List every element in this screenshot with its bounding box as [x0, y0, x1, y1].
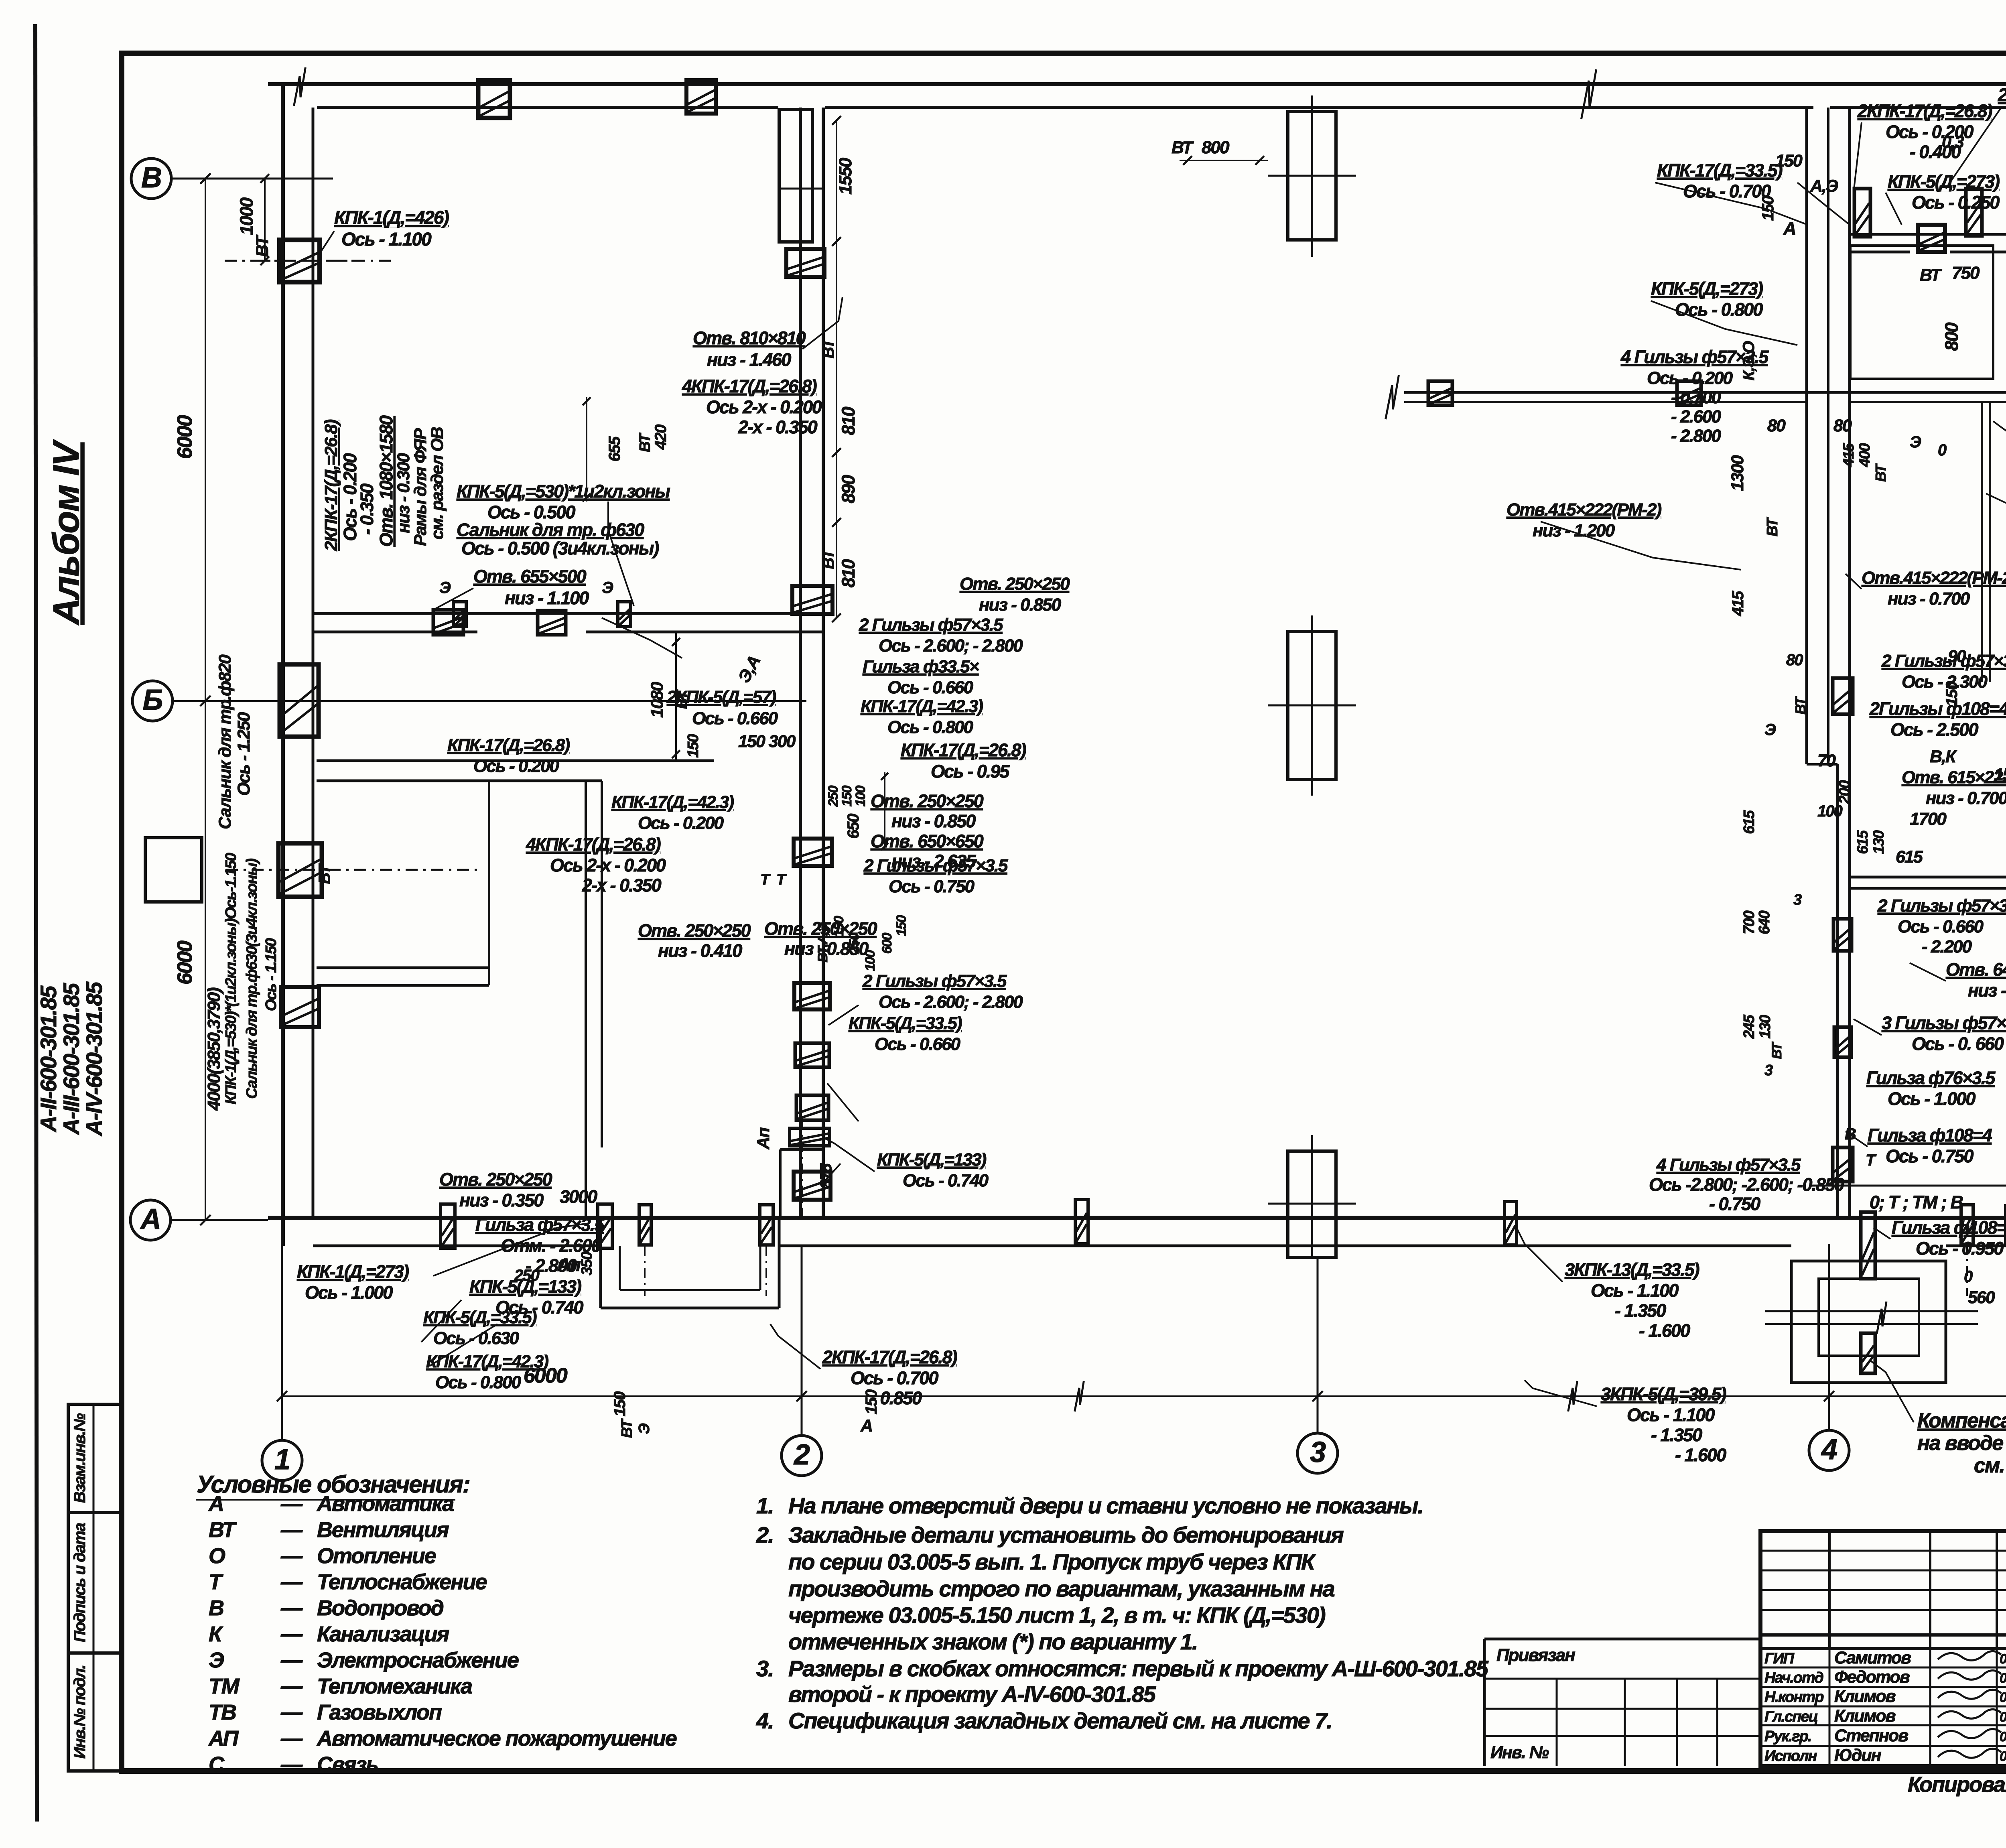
- svg-text:0: 0: [1964, 1268, 1973, 1285]
- svg-text:2 Гильзы ф57×3.5: 2 Гильзы ф57×3.5: [859, 615, 1003, 635]
- svg-text:Ось - 1.100: Ось - 1.100: [341, 229, 432, 250]
- svg-text:2КПК-5(Д,=57): 2КПК-5(Д,=57): [1998, 85, 2006, 105]
- svg-text:80: 80: [1786, 651, 1803, 669]
- svg-text:2 Гильзы ф57×3.5: 2 Гильзы ф57×3.5: [863, 856, 1008, 875]
- svg-text:3КПК-13(Д,=33.5): 3КПК-13(Д,=33.5): [1565, 1259, 1699, 1280]
- svg-text:Самитов: Самитов: [1834, 1648, 1911, 1667]
- svg-text:С: С: [209, 1753, 225, 1777]
- svg-text:Отв. 250×250: Отв. 250×250: [960, 574, 1070, 594]
- break mark top wall middle: [1581, 69, 1596, 119]
- axis circle 4: [1809, 1430, 1849, 1470]
- svg-text:КПК-5(Д,=33.5): КПК-5(Д,=33.5): [423, 1308, 537, 1327]
- svg-text:250: 250: [514, 1267, 539, 1284]
- title block top section lines: [1760, 1633, 2006, 1637]
- svg-text:100: 100: [863, 950, 878, 971]
- svg-text:ВТ: ВТ: [619, 1418, 636, 1438]
- svg-text:Ось - 0.950: Ось - 0.950: [1916, 1238, 2004, 1259]
- svg-text:Инв. №: Инв. №: [1490, 1743, 1549, 1762]
- svg-text:615: 615: [1854, 830, 1871, 854]
- axis line 3: [1317, 1258, 1319, 1433]
- svg-text:А-II-600-301.85: А-II-600-301.85: [36, 985, 61, 1133]
- svg-text:В: В: [141, 162, 161, 194]
- svg-text:Автоматика: Автоматика: [316, 1492, 454, 1516]
- svg-text:1300: 1300: [1728, 455, 1747, 491]
- svg-text:А-III-600-301.85: А-III-600-301.85: [59, 983, 84, 1135]
- svg-text:Рук.гр.: Рук.гр.: [1764, 1728, 1811, 1745]
- svg-text:КПК-1(Д,=273): КПК-1(Д,=273): [297, 1261, 409, 1282]
- partition x4950: [1981, 402, 1983, 682]
- title block outer: [1760, 1531, 2006, 1766]
- svg-text:- 2.600: - 2.600: [1671, 407, 1722, 426]
- svg-text:Теплоснабжение: Теплоснабжение: [317, 1570, 487, 1594]
- svg-text:КПК-5(Д,=133): КПК-5(Д,=133): [877, 1150, 987, 1170]
- svg-text:ВТ: ВТ: [637, 433, 654, 452]
- axis circle 3: [1297, 1433, 1338, 1473]
- svg-text:Ось - 0.95: Ось - 0.95: [931, 761, 1010, 782]
- extra ticks top-right chain: [1830, 202, 2006, 203]
- svg-text:245: 245: [1741, 1014, 1758, 1039]
- svg-text:Гильза ф108=4: Гильза ф108=4: [1868, 1125, 1992, 1145]
- margin box Инв.№ подл.: [68, 1653, 122, 1771]
- svg-text:Степнов: Степнов: [1834, 1726, 1908, 1745]
- svg-text:6000: 6000: [173, 415, 197, 459]
- svg-text:750: 750: [1952, 263, 1980, 283]
- svg-text:Ап: Ап: [557, 1255, 581, 1275]
- svg-text:Э: Э: [1764, 721, 1776, 739]
- svg-text:ВТ: ВТ: [1920, 266, 1942, 285]
- svg-text:Спецификация закладных деталей: Спецификация закладных деталей см. на ли…: [788, 1708, 1332, 1733]
- svg-text:КПК-5(Д,=273): КПК-5(Д,=273): [1651, 278, 1763, 299]
- svg-text:низ - 0.300: низ - 0.300: [394, 453, 413, 533]
- svg-text:В: В: [209, 1596, 223, 1620]
- svg-text:4.: 4.: [756, 1708, 774, 1733]
- svg-text:- 2.200: - 2.200: [1922, 937, 1972, 956]
- svg-text:Копировал: Копировал: [1908, 1773, 2006, 1797]
- svg-text:Сальник для тр.ф820: Сальник для тр.ф820: [215, 654, 235, 829]
- svg-text:800: 800: [1202, 138, 1230, 157]
- svg-text:Отв. 655×500: Отв. 655×500: [473, 566, 587, 587]
- svg-text:Отв. 650×650: Отв. 650×650: [871, 831, 984, 851]
- svg-text:ВТ: ВТ: [209, 1518, 237, 1542]
- svg-text:низ - 0.850: низ - 0.850: [891, 811, 976, 831]
- interior wall axis 4: [1805, 108, 1808, 764]
- svg-text:ВТ: ВТ: [1792, 696, 1809, 715]
- axis circle В: [131, 158, 171, 199]
- left wall inner line: [312, 108, 315, 1218]
- column axis3 top: [1288, 112, 1336, 240]
- svg-text:250: 250: [847, 933, 862, 954]
- svg-text:- 0.700: - 0.700: [1671, 388, 1722, 407]
- svg-text:Э: Э: [636, 1424, 653, 1434]
- entrance pit below axis A (1-2): [599, 1218, 602, 1308]
- svg-text:Привязан: Привязан: [1496, 1645, 1575, 1665]
- svg-text:ВТ: ВТ: [1172, 138, 1194, 157]
- svg-text:150: 150: [831, 916, 847, 937]
- interior wall axis 2: [799, 108, 802, 1218]
- svg-text:низ - 1.100: низ - 1.100: [505, 588, 589, 608]
- detail on top wall near axis4: [1854, 189, 1870, 237]
- svg-text:чертеже 03.005-5.150 лист 1, 2: чертеже 03.005-5.150 лист 1, 2, в т. ч: …: [788, 1602, 1326, 1628]
- axis circle Б: [132, 681, 173, 721]
- svg-text:Инв.№ подл.: Инв.№ подл.: [71, 1665, 89, 1759]
- svg-text:655: 655: [606, 436, 623, 461]
- svg-text:150: 150: [894, 915, 909, 936]
- details corridor wall right: [1918, 225, 1945, 252]
- svg-text:Вентиляция: Вентиляция: [317, 1518, 449, 1542]
- svg-text:150: 150: [685, 734, 702, 757]
- svg-text:- 2.800: - 2.800: [1671, 426, 1722, 446]
- svg-text:на вводе электрокабелей: на вводе электрокабелей: [1917, 1432, 2006, 1455]
- axis circle 1: [262, 1440, 302, 1480]
- sheet edge left: [35, 24, 37, 1822]
- platform line right bottom: [1810, 1185, 2006, 1187]
- svg-text:КПК-1(Д,=530)*(1и2кл.зоны)Ось-: КПК-1(Д,=530)*(1и2кл.зоны)Ось-1.150: [223, 853, 240, 1105]
- svg-text:ВТ: ВТ: [820, 548, 837, 569]
- svg-text:Ось - 0.750: Ось - 0.750: [889, 877, 975, 896]
- svg-text:—: —: [280, 1726, 303, 1751]
- svg-text:Отв. 250×250: Отв. 250×250: [871, 791, 984, 811]
- svg-text:Взам.инв.№: Взам.инв.№: [71, 1413, 89, 1503]
- svg-text:Отв. 615×222(РМ-3): Отв. 615×222(РМ-3): [1902, 768, 2006, 787]
- svg-text:Отопление: Отопление: [317, 1544, 436, 1568]
- svg-text:—: —: [280, 1648, 303, 1672]
- svg-text:Б: Б: [143, 684, 162, 716]
- svg-text:Э: Э: [209, 1648, 224, 1672]
- svg-text:КПК-17(Д,=26.8): КПК-17(Д,=26.8): [447, 735, 570, 755]
- svg-text:—: —: [280, 1753, 303, 1777]
- svg-text:100: 100: [1817, 802, 1842, 820]
- svg-text:3.: 3.: [756, 1656, 774, 1681]
- svg-text:650: 650: [845, 814, 862, 839]
- svg-text:415: 415: [1729, 591, 1747, 616]
- svg-text:КПК-5(Д,=33.5): КПК-5(Д,=33.5): [849, 1013, 962, 1033]
- partition x1460 left bay: [585, 781, 587, 1218]
- svg-text:Нач.отд: Нач.отд: [1764, 1669, 1823, 1686]
- details bottom wall row: [639, 1205, 651, 1245]
- svg-text:второй - к проекту А-IV-600-30: второй - к проекту А-IV-600-301.85: [788, 1681, 1156, 1707]
- svg-text:2КПК-17(Д,=26.8): 2КПК-17(Д,=26.8): [321, 419, 341, 551]
- svg-text:Ось - 0.660: Ось - 0.660: [1898, 917, 1984, 936]
- extra detail axis2 top: [786, 249, 824, 277]
- details on y978 wall: [1428, 381, 1452, 405]
- svg-text:Ось - 0.800: Ось - 0.800: [887, 717, 974, 737]
- svg-text:2Гильзы ф108=4: 2Гильзы ф108=4: [1869, 699, 2006, 719]
- svg-text:низ - 1.460: низ - 1.460: [707, 349, 791, 370]
- svg-text:150: 150: [839, 786, 855, 807]
- svg-text:низ - 0.700: низ - 0.700: [1926, 788, 2006, 808]
- svg-text:Тепломеханика: Тепломеханика: [317, 1674, 472, 1698]
- block at top of axis-2 wall: [779, 110, 812, 242]
- svg-text:130: 130: [1870, 830, 1887, 854]
- details bottom wall left part: [441, 1204, 455, 1248]
- svg-text:по серии 03.005-5 вып. 1. Проп: по серии 03.005-5 вып. 1. Пропуск труб ч…: [788, 1549, 1316, 1574]
- svg-text:Электроснабжение: Электроснабжение: [317, 1648, 519, 1672]
- column axis3 bottom: [1288, 1151, 1336, 1257]
- svg-text:- 0.750: - 0.750: [1709, 1194, 1760, 1214]
- svg-text:А: А: [140, 1203, 160, 1235]
- svg-text:Гильза ф33.5×: Гильза ф33.5×: [863, 657, 979, 676]
- svg-text:Ось - 0.800: Ось - 0.800: [435, 1373, 522, 1392]
- left wall outer line: [281, 84, 285, 1246]
- margin box Взам.инв.№: [68, 1404, 122, 1513]
- svg-text:КПК-5(Д,=530)*1и2кл.зоны: КПК-5(Д,=530)*1и2кл.зоны: [457, 481, 670, 502]
- svg-text:Ап: Ап: [754, 1127, 773, 1150]
- svg-text:250: 250: [826, 786, 841, 807]
- interior wall Б upper: [313, 612, 823, 615]
- svg-text:Ось - 0.750: Ось - 0.750: [1886, 1146, 1974, 1166]
- svg-text:Отв. 810×810: Отв. 810×810: [693, 328, 806, 348]
- svg-text:350: 350: [579, 1251, 595, 1275]
- svg-text:Ось -2.800; -2.600; -0.850: Ось -2.800; -2.600; -0.850: [1649, 1174, 1844, 1195]
- svg-text:Э: Э: [439, 579, 451, 597]
- svg-text:А: А: [208, 1492, 223, 1516]
- svg-text:—: —: [280, 1544, 303, 1568]
- svg-text:3000: 3000: [560, 1186, 597, 1207]
- svg-text:Ось - 2.500: Ось - 2.500: [1890, 719, 1978, 740]
- svg-text:см. лист 10.: см. лист 10.: [1974, 1454, 2006, 1477]
- svg-text:Ось - 1.100: Ось - 1.100: [1627, 1405, 1715, 1425]
- bottom dimension line: [282, 1395, 2006, 1397]
- svg-text:640: 640: [1756, 910, 1773, 934]
- svg-text:ГИП: ГИП: [1764, 1650, 1795, 1667]
- svg-text:70: 70: [1817, 751, 1836, 770]
- svg-text:Размеры в скобках относятся: п: Размеры в скобках относятся: первый к пр…: [788, 1656, 1489, 1681]
- svg-text:ВТ: ВТ: [316, 863, 333, 884]
- svg-text:КПК-17(Д,=42.3): КПК-17(Д,=42.3): [611, 792, 734, 812]
- svg-text:2КПК-17(Д,=26.8): 2КПК-17(Д,=26.8): [1857, 101, 1992, 121]
- svg-text:415: 415: [1840, 443, 1857, 467]
- svg-text:100: 100: [853, 786, 868, 807]
- svg-text:—: —: [280, 1518, 303, 1542]
- svg-text:Сальник для тр.ф630(3и4кл.зоны: Сальник для тр.ф630(3и4кл.зоны): [244, 859, 260, 1099]
- details lower left wall: [281, 987, 319, 1027]
- axis circle А: [130, 1200, 171, 1240]
- svg-text:Ось - 0.740: Ось - 0.740: [903, 1171, 989, 1190]
- svg-text:ВТ: ВТ: [1764, 517, 1781, 536]
- svg-text:Гильза ф76×3.5: Гильза ф76×3.5: [1866, 1068, 1996, 1088]
- svg-text:ТВ: ТВ: [209, 1700, 236, 1724]
- svg-text:4КПК-17(Д,=26.8): 4КПК-17(Д,=26.8): [526, 834, 661, 855]
- svg-text:Альбом IV: Альбом IV: [46, 439, 87, 625]
- axis line 4: [1828, 1244, 1830, 1430]
- svg-text:Ось - 0.200: Ось - 0.200: [638, 813, 724, 833]
- axis line 2: [801, 1246, 803, 1436]
- svg-text:Ось - 0.200: Ось - 0.200: [473, 756, 560, 776]
- svg-text:низ - 1.750: низ - 1.750: [1968, 980, 2006, 1001]
- svg-text:150: 150: [1775, 151, 1803, 171]
- axis line В: [171, 178, 333, 180]
- svg-text:Отв. 250×250: Отв. 250×250: [638, 920, 751, 941]
- svg-text:На плане отверстий двери и ста: На плане отверстий двери и ставни условн…: [788, 1493, 1423, 1518]
- svg-text:Исполн: Исполн: [1764, 1748, 1817, 1765]
- sleeve detail left of wall: [145, 838, 202, 902]
- svg-text:КПК-17(Д,=26.8): КПК-17(Д,=26.8): [901, 740, 1026, 760]
- svg-text:- 1.350: - 1.350: [1615, 1300, 1666, 1321]
- svg-text:2.: 2.: [756, 1522, 774, 1547]
- svg-text:810: 810: [838, 406, 859, 435]
- svg-text:Компенсационное устройство: Компенсационное устройство: [1917, 1409, 2006, 1432]
- svg-text:—: —: [280, 1674, 303, 1698]
- svg-text:150 300: 150 300: [738, 732, 796, 751]
- svg-text:Ось - 1.000: Ось - 1.000: [305, 1282, 393, 1303]
- svg-text:700: 700: [1741, 910, 1758, 934]
- svg-text:ВТ: ВТ: [253, 234, 272, 257]
- svg-text:производить строго по варианта: производить строго по вариантам, указанн…: [788, 1576, 1334, 1601]
- svg-text:КПК-17(Д,=42.3): КПК-17(Д,=42.3): [426, 1352, 548, 1371]
- svg-text:КПК-1(Д,=426): КПК-1(Д,=426): [334, 207, 449, 228]
- svg-text:2: 2: [793, 1439, 810, 1471]
- svg-text:80: 80: [1833, 416, 1852, 435]
- interior wall left small room: [317, 967, 489, 969]
- svg-text:Э: Э: [1910, 433, 1921, 451]
- svg-text:6000: 6000: [173, 940, 197, 985]
- svg-text:Федотов: Федотов: [1834, 1667, 1910, 1687]
- svg-text:Ось - 1.100: Ось - 1.100: [1591, 1280, 1679, 1301]
- detail КПК-1 Д426 on left wall: [280, 240, 320, 282]
- svg-text:Ось - 1.250: Ось - 1.250: [234, 712, 254, 796]
- details on axis2 wall: [792, 586, 832, 614]
- svg-text:О: О: [209, 1544, 225, 1568]
- axis line 1: [281, 1246, 283, 1440]
- svg-text:Ось - 0.200: Ось - 0.200: [1647, 368, 1733, 388]
- dash axis through left wall details: [225, 260, 393, 262]
- svg-text:Сальник для тр. ф630: Сальник для тр. ф630: [457, 520, 644, 540]
- svg-text:Ось - 0.660: Ось - 0.660: [692, 709, 778, 728]
- dim 1000 В to detail: [264, 179, 266, 261]
- svg-text:КПК-17(Д,=42.3): КПК-17(Д,=42.3): [861, 697, 983, 716]
- svg-text:3: 3: [1793, 892, 1802, 908]
- bottom wall outer (axis A) line: [268, 1216, 2006, 1220]
- svg-text:4 Гильзы ф57×3.5: 4 Гильзы ф57×3.5: [1656, 1155, 1801, 1175]
- interior corridor wall top right: [1850, 233, 2006, 236]
- svg-text:Водопровод: Водопровод: [317, 1596, 444, 1620]
- svg-text:600: 600: [879, 933, 895, 954]
- svg-text:Канализация: Канализация: [317, 1622, 449, 1646]
- svg-text:Гильза ф57×3.5: Гильза ф57×3.5: [475, 1214, 605, 1235]
- top wall outer line: [268, 82, 2006, 86]
- svg-text:420: 420: [652, 424, 670, 450]
- svg-text:Ось - 0.660: Ось - 0.660: [887, 678, 974, 697]
- svg-text:- 1.600: - 1.600: [1675, 1445, 1726, 1465]
- svg-text:- 1.350: - 1.350: [1651, 1425, 1702, 1445]
- svg-text:2 Гильзы ф57×3.5: 2 Гильзы ф57×3.5: [862, 971, 1007, 991]
- svg-text:150: 150: [863, 1389, 880, 1414]
- svg-text:Закладные детали установить до: Закладные детали установить до бетониров…: [788, 1522, 1344, 1547]
- dim chain axis2 right: [836, 120, 837, 618]
- svg-text:Автоматическое пожаротушение: Автоматическое пожаротушение: [316, 1726, 677, 1751]
- svg-text:А: А: [1783, 218, 1796, 239]
- title block lower grid: [1760, 1667, 2006, 1669]
- svg-text:2-х - 0.350: 2-х - 0.350: [738, 417, 818, 437]
- svg-text:ВТ: ВТ: [1872, 463, 1889, 482]
- svg-text:Отв. 1080×1580: Отв. 1080×1580: [376, 415, 396, 547]
- svg-text:Ось - 0.700: Ось - 0.700: [1683, 181, 1771, 201]
- svg-text:1080: 1080: [648, 682, 667, 718]
- dim line 655-420 vertical left: [586, 397, 587, 502]
- svg-text:—: —: [280, 1700, 303, 1724]
- svg-text:1700: 1700: [1910, 809, 1947, 829]
- svg-text:ВТ: ВТ: [1769, 1041, 1785, 1059]
- svg-text:200: 200: [1836, 780, 1853, 804]
- svg-text:Ось 2-х - 0.200: Ось 2-х - 0.200: [550, 855, 666, 875]
- svg-text:0: 0: [1938, 441, 1947, 459]
- svg-text:Ось - 0.630: Ось - 0.630: [433, 1328, 520, 1348]
- svg-text:Рамы для ФЯР: Рамы для ФЯР: [411, 428, 430, 546]
- svg-text:Э: Э: [602, 579, 613, 597]
- svg-text:Гл.спец: Гл.спец: [1764, 1708, 1818, 1725]
- svg-text:Подпись и дата: Подпись и дата: [71, 1523, 89, 1642]
- svg-text:3: 3: [1310, 1436, 1326, 1468]
- svg-text:ВТ: ВТ: [820, 337, 837, 358]
- svg-text:Климов: Климов: [1834, 1687, 1896, 1706]
- svg-text:Отв. 250×250: Отв. 250×250: [439, 1169, 552, 1190]
- svg-text:К,Э,О: К,Э,О: [1740, 341, 1758, 381]
- svg-text:Ось - 2.300: Ось - 2.300: [1902, 672, 1988, 692]
- svg-text:—: —: [280, 1492, 303, 1516]
- column axis3 middle: [1288, 632, 1336, 780]
- svg-text:Ось 2-х - 0.200: Ось 2-х - 0.200: [706, 397, 822, 417]
- compensation device box: [1791, 1261, 1946, 1383]
- top wall inner line: [317, 106, 778, 109]
- margin box Подпись и дата: [68, 1513, 122, 1653]
- details on left wall: [280, 664, 319, 737]
- svg-text:низ - 0.700: низ - 0.700: [1888, 589, 1970, 609]
- svg-text:4КПК-17(Д,=26.8): 4КПК-17(Д,=26.8): [682, 376, 817, 396]
- svg-text:ВТ,А,Э: ВТ,А,Э: [815, 923, 830, 963]
- svg-text:615: 615: [1896, 847, 1923, 867]
- svg-text:150: 150: [611, 1391, 629, 1416]
- svg-text:800: 800: [1941, 322, 1962, 351]
- svg-text:Климов: Климов: [1834, 1706, 1896, 1726]
- svg-text:Ось - 1.150: Ось - 1.150: [263, 938, 280, 1011]
- svg-text:2 Гильзы ф57×3.5: 2 Гильзы ф57×3.5: [1877, 896, 2006, 916]
- svg-text:0,3: 0,3: [1942, 132, 1964, 152]
- interior wall below Б: [317, 760, 714, 762]
- svg-text:1000: 1000: [236, 197, 257, 235]
- svg-text:1.: 1.: [756, 1493, 774, 1518]
- svg-text:Ось - 1.000: Ось - 1.000: [1888, 1088, 1976, 1109]
- dim chain left of axis2 lower: [675, 632, 677, 761]
- svg-text:4000(3850,3790): 4000(3850,3790): [204, 987, 224, 1111]
- svg-text:КПК-5(Д,=273): КПК-5(Д,=273): [1888, 171, 2000, 192]
- svg-text:Ось - 0.500 (3и4кл.зоны): Ось - 0.500 (3и4кл.зоны): [461, 538, 659, 558]
- break mark top wall left: [294, 67, 306, 106]
- svg-text:В,К: В,К: [1930, 747, 1957, 766]
- privyazan table: [1484, 1638, 1760, 1641]
- niche right of entrance pit: [779, 1149, 782, 1218]
- svg-text:низ - 0.850: низ - 0.850: [979, 595, 1062, 615]
- svg-text:Ось - 0.800: Ось - 0.800: [1675, 299, 1763, 320]
- svg-text:3КПК-5(Д,=39.5): 3КПК-5(Д,=39.5): [1601, 1384, 1726, 1404]
- svg-text:400: 400: [1856, 443, 1873, 467]
- break marks bottom dim line: [1075, 1381, 1084, 1411]
- svg-text:Ось - 0. 660: Ось - 0. 660: [1912, 1034, 2004, 1054]
- svg-text:низ - 0.410: низ - 0.410: [658, 940, 742, 961]
- partition x1219 left bay: [488, 781, 490, 985]
- svg-text:560: 560: [1968, 1288, 1995, 1307]
- interior wall y2186 right part: [1850, 876, 2006, 879]
- svg-text:- 0.350: - 0.350: [357, 483, 377, 535]
- svg-text:810: 810: [838, 559, 859, 587]
- svg-text:615: 615: [1741, 810, 1758, 834]
- svg-text:Ось - 2.600; - 2.800: Ось - 2.600; - 2.800: [879, 636, 1023, 656]
- details top wall: [478, 80, 510, 118]
- svg-text:0; Т ; ТМ ; В: 0; Т ; ТМ ; В: [1870, 1192, 1963, 1212]
- centerline dashes below bottom-wall details: [644, 1246, 646, 1296]
- svg-text:Юдин: Юдин: [1834, 1746, 1882, 1765]
- details axis4 wall lower: [1833, 678, 1853, 714]
- svg-text:2-х - 0.350: 2-х - 0.350: [582, 875, 662, 896]
